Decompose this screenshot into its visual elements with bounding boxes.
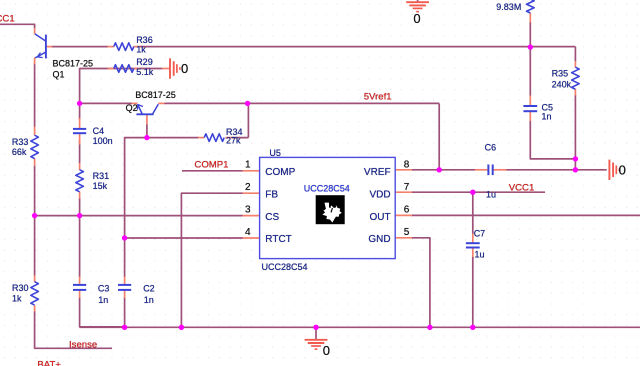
svg-text:R29: R29: [136, 57, 153, 67]
svg-text:0: 0: [323, 343, 330, 358]
svg-text:1n: 1n: [98, 295, 108, 305]
svg-text:C4: C4: [93, 126, 105, 136]
svg-text:1: 1: [245, 160, 251, 171]
svg-text:Isense: Isense: [69, 340, 97, 351]
svg-text:7: 7: [404, 182, 410, 193]
svg-text:R35: R35: [552, 69, 569, 79]
svg-text:1u: 1u: [486, 190, 496, 200]
svg-text:0: 0: [413, 11, 420, 26]
svg-text:C3: C3: [98, 284, 110, 294]
svg-text:GND: GND: [368, 234, 390, 245]
svg-text:CS: CS: [265, 212, 279, 223]
svg-text:VDD: VDD: [369, 189, 390, 200]
svg-text:UCC28C54: UCC28C54: [304, 184, 350, 194]
svg-text:VCC1: VCC1: [0, 14, 15, 25]
svg-text:RTCT: RTCT: [265, 234, 291, 245]
svg-text:C6: C6: [485, 142, 497, 152]
svg-text:9.83M: 9.83M: [496, 2, 521, 12]
svg-text:COMP: COMP: [265, 167, 295, 178]
svg-text:5Vref1: 5Vref1: [364, 91, 392, 102]
svg-text:C7: C7: [474, 229, 486, 239]
svg-text:R33: R33: [12, 137, 29, 147]
svg-text:66k: 66k: [12, 147, 27, 157]
svg-text:100n: 100n: [93, 136, 113, 146]
svg-text:BC817-25: BC817-25: [135, 90, 176, 100]
svg-text:0: 0: [181, 61, 188, 76]
svg-text:1u: 1u: [475, 250, 485, 260]
svg-text:27k: 27k: [226, 136, 241, 146]
svg-text:240k: 240k: [552, 80, 572, 90]
svg-text:1n: 1n: [144, 295, 154, 305]
svg-text:C2: C2: [143, 284, 155, 294]
svg-text:15k: 15k: [93, 181, 108, 191]
svg-text:BC817-25: BC817-25: [53, 58, 94, 68]
svg-text:0: 0: [619, 162, 626, 177]
svg-text:VREF: VREF: [364, 167, 391, 178]
svg-text:1k: 1k: [136, 45, 146, 55]
svg-text:5: 5: [404, 227, 410, 238]
svg-text:2: 2: [245, 182, 251, 193]
svg-text:Q2: Q2: [126, 103, 138, 113]
svg-text:VCC1: VCC1: [509, 182, 535, 193]
svg-text:6: 6: [404, 204, 410, 215]
svg-text:COMP1: COMP1: [194, 160, 228, 171]
svg-text:FB: FB: [265, 189, 278, 200]
svg-text:R30: R30: [12, 283, 29, 293]
svg-text:3: 3: [245, 204, 251, 215]
svg-text:1n: 1n: [542, 112, 552, 122]
svg-text:Q1: Q1: [53, 70, 65, 80]
svg-text:R31: R31: [93, 171, 110, 181]
svg-text:1k: 1k: [12, 293, 22, 303]
svg-text:R36: R36: [136, 35, 153, 45]
svg-text:UCC28C54: UCC28C54: [262, 262, 308, 272]
svg-text:8: 8: [404, 160, 410, 171]
svg-text:4: 4: [245, 227, 251, 238]
svg-text:BAT+: BAT+: [37, 360, 61, 366]
svg-text:U5: U5: [269, 148, 281, 158]
svg-text:5.1k: 5.1k: [136, 67, 154, 77]
svg-text:OUT: OUT: [369, 212, 390, 223]
